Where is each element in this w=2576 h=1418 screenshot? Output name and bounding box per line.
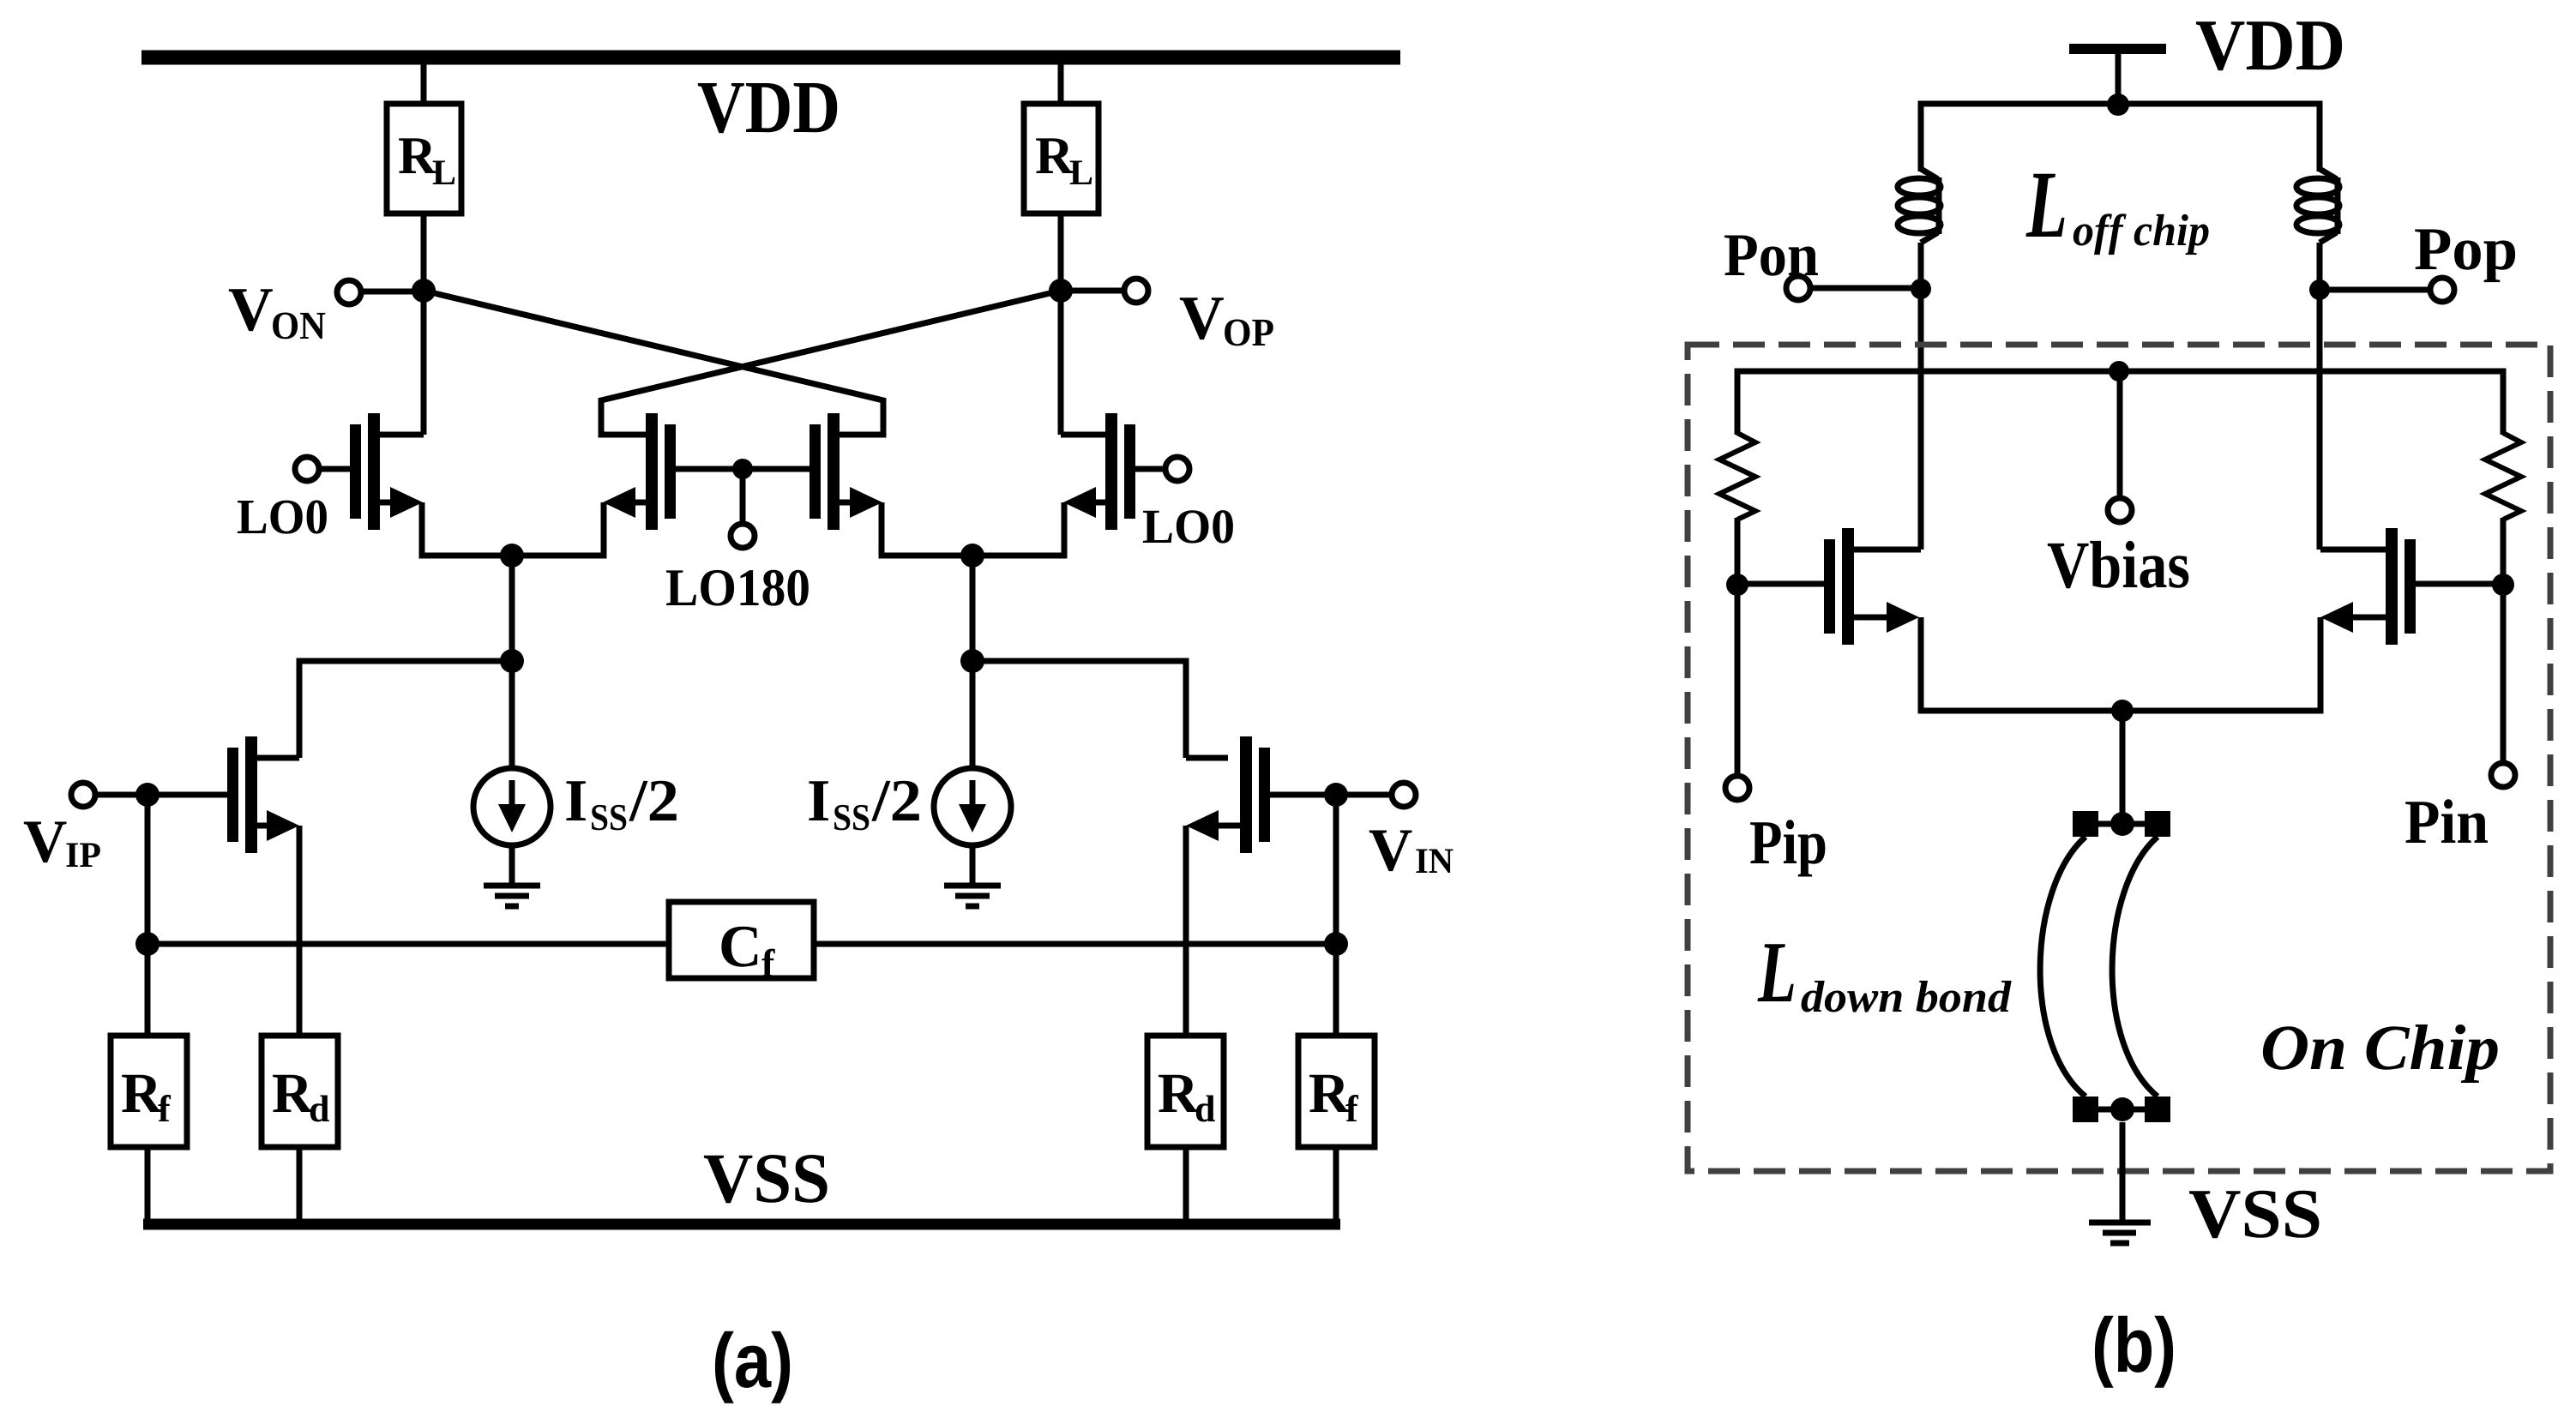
resistor Rf left — [111, 1036, 187, 1147]
capacitor Cf — [669, 902, 814, 978]
wire M2 source to left tail — [512, 502, 604, 556]
label ISS/2 left — [566, 781, 676, 831]
wire to Rf left — [145, 944, 151, 1038]
wire Q2 source to common node — [2122, 617, 2320, 711]
label L off chip — [2025, 174, 2208, 255]
terminal Pop — [2430, 278, 2454, 302]
transistor M4 (LO0 right) — [1061, 413, 1166, 530]
wire Rg right to Q2 gate node — [2501, 518, 2507, 585]
label LO0 right — [1143, 510, 1233, 544]
wire Rd left to VSS — [297, 1147, 303, 1224]
VSS rail (a) — [143, 1219, 1340, 1230]
ground right — [944, 886, 1001, 906]
wire RL right to node VOP — [1058, 213, 1064, 293]
wire Rg left to Q1 gate node — [1735, 518, 1741, 585]
label Pin — [2405, 799, 2488, 843]
wire to Rf right — [1333, 944, 1339, 1038]
label RL left — [399, 138, 454, 184]
wire Q1 source to common node — [1921, 617, 2122, 711]
wire common source to down-bond — [2120, 711, 2126, 813]
label VOP — [1180, 297, 1273, 345]
wire VIP gate node down — [145, 795, 151, 944]
node VOP — [1049, 279, 1073, 303]
terminal Pon — [1786, 276, 1810, 300]
wire left tail to current source — [509, 661, 515, 771]
node Q1 gate — [1726, 574, 1748, 596]
ground VSS (b) — [2089, 1223, 2151, 1243]
wire left tail down — [509, 556, 515, 661]
wire VOP to M2 drain (cross-coupling) — [601, 291, 1061, 435]
resistor Rd right — [1147, 1036, 1224, 1147]
label LO0 left — [238, 500, 327, 533]
node Pop — [2309, 279, 2330, 300]
wire node to Pop terminal — [2320, 287, 2430, 293]
node left tail — [500, 544, 524, 568]
wire Pon branch — [1918, 243, 1924, 550]
wire right tail down — [970, 556, 976, 661]
resistor Rf right — [1298, 1036, 1375, 1147]
node Pon — [1911, 279, 1931, 299]
current source ISS/2 left — [473, 768, 551, 845]
label ISS/2 right — [809, 781, 918, 831]
wire Q2 gate node to Pin — [2501, 585, 2507, 763]
VDD supply rail (a) — [141, 51, 1400, 65]
label Rf left — [122, 1075, 171, 1121]
inductor L off-chip right — [2296, 169, 2339, 243]
terminal Pip — [1725, 776, 1749, 800]
terminal Pin — [2491, 763, 2515, 787]
label Rf right — [1309, 1075, 1358, 1121]
wire node to Vbias terminal — [2117, 371, 2123, 499]
inductor L down-bond bottom pads — [2073, 1097, 2170, 1122]
node LO180 — [732, 459, 753, 479]
wire VON to M3 drain (cross-coupling) — [424, 291, 883, 435]
VDD symbol (b) — [2069, 49, 2166, 104]
label L down bond — [1758, 944, 2012, 1012]
wire left tail to VIP drain — [299, 661, 512, 758]
wire node VON to terminal — [361, 289, 424, 295]
label Rd right — [1159, 1075, 1215, 1122]
node left tail lower — [500, 649, 524, 673]
wire M1 source to left tail — [422, 502, 512, 556]
wire Cf left — [147, 941, 669, 947]
label LO180 — [666, 570, 809, 606]
node Vbias — [2109, 361, 2129, 382]
caption (a) — [715, 1331, 790, 1403]
wire VIN gate — [1270, 792, 1392, 798]
wire Rf left to VSS — [145, 1147, 151, 1224]
terminal LO0 right — [1165, 457, 1189, 481]
node VIP gate — [135, 783, 159, 807]
label RL right — [1036, 138, 1092, 184]
wire VDD rail to RL right — [1058, 64, 1064, 106]
label VDD (b) — [2196, 21, 2342, 70]
caption (b) — [2095, 1316, 2173, 1388]
label VDD (a) — [698, 83, 837, 133]
node common source (b) — [2111, 700, 2134, 722]
wire VDD rail to RL left — [421, 64, 427, 106]
current source ISS/2 right — [934, 768, 1011, 845]
wire LO180 node to terminal — [740, 469, 746, 525]
ground left — [484, 886, 540, 906]
transistor M3 (LO180 right) — [810, 413, 883, 530]
wire M1 drain to node VON — [421, 291, 427, 435]
wire current source left to ground — [509, 845, 515, 885]
transistor VIN input — [1186, 736, 1270, 853]
wire VDD top rail (b) — [1921, 104, 2320, 171]
label Pon — [1724, 236, 1818, 276]
wire down-bond to ground — [2120, 1122, 2126, 1221]
label Pop — [2415, 230, 2515, 283]
node Cf left — [135, 932, 159, 956]
On-Chip boundary box — [1688, 345, 2550, 1171]
node Cf right — [1324, 932, 1348, 956]
wire Pop branch — [2317, 243, 2323, 550]
node right tail lower — [960, 649, 984, 673]
label VON — [229, 289, 326, 339]
inductor L off-chip left — [1898, 169, 1941, 243]
terminal LO0 left — [295, 457, 319, 481]
node VDD (b) — [2107, 93, 2129, 116]
wire gate line M2-M3 (LO180) — [676, 466, 810, 472]
wire right tail to current source — [970, 661, 976, 771]
label VSS (b) — [2189, 1191, 2319, 1239]
wire Q1 gate node to Pip — [1735, 585, 1741, 776]
terminal VOP — [1124, 279, 1148, 303]
wire Cf right — [814, 941, 1336, 947]
transistor Q1 (buffer left) — [1737, 528, 1921, 645]
terminal VIN — [1392, 783, 1416, 807]
transistor Q2 (buffer right) — [2320, 528, 2503, 645]
label Cf — [721, 927, 774, 976]
transistor M2 (LO180 left) — [601, 413, 676, 530]
label On Chip — [2263, 1024, 2498, 1083]
wire gate bias line — [1737, 371, 2503, 435]
wire M3 source to right tail — [882, 502, 972, 556]
node VIN gate — [1324, 783, 1348, 807]
wire M4 drain to node VOP — [1058, 291, 1064, 435]
wire current source right to ground — [970, 845, 976, 885]
terminal VIP — [71, 783, 95, 807]
terminal LO180 — [731, 524, 755, 548]
transistor M1 (LO0 left) — [318, 413, 424, 530]
node right tail — [960, 544, 984, 568]
node Q2 gate — [2492, 574, 2514, 596]
resistor Rd left — [262, 1036, 338, 1147]
transistor VIP input — [227, 736, 299, 853]
label Rd left — [273, 1075, 329, 1122]
terminal Vbias — [2108, 498, 2132, 522]
label VSS (a) — [704, 1155, 828, 1203]
label VIP — [24, 822, 100, 868]
wire node VOP to terminal — [1061, 288, 1124, 294]
wire VIN source to Rd right — [1183, 826, 1189, 1038]
node VON — [412, 279, 436, 303]
resistor RL right — [1024, 104, 1098, 213]
wire right tail to VIN drain — [972, 661, 1186, 758]
label VIN — [1369, 831, 1454, 874]
inductor L down-bond wires — [2040, 837, 2158, 1097]
wire Rd right to VSS — [1183, 1147, 1189, 1224]
wire M4 source to right tail — [972, 502, 1064, 556]
wire Rf right to VSS — [1333, 1147, 1339, 1224]
wire VIP gate — [95, 792, 227, 798]
wire node to Pon terminal — [1810, 285, 1921, 291]
wire VIP source to Rd left — [297, 826, 303, 1038]
resistor Rg left (zigzag) — [1719, 433, 1755, 520]
resistor Rg right (zigzag) — [2485, 433, 2521, 520]
inductor L down-bond top pads — [2073, 811, 2170, 837]
label Vbias — [2048, 541, 2189, 588]
label Pip — [1750, 820, 1825, 876]
wire RL left to node VON — [421, 213, 427, 293]
wire VIN gate node down — [1333, 795, 1339, 944]
terminal VON — [337, 280, 361, 304]
resistor RL left — [387, 104, 461, 213]
